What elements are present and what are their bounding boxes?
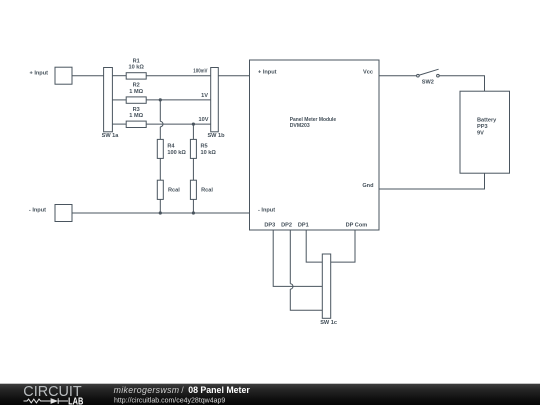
svg-text:DP2: DP2	[281, 222, 292, 228]
svg-text:1 MΩ: 1 MΩ	[129, 89, 143, 95]
svg-text:100mV: 100mV	[193, 69, 207, 75]
svg-text:- Input: - Input	[258, 208, 275, 214]
svg-text:DP1: DP1	[298, 222, 309, 228]
svg-text:Rcal: Rcal	[168, 187, 180, 193]
wire hop DP2 over DP3	[290, 284, 293, 289]
svg-text:Vcc: Vcc	[363, 69, 373, 75]
svg-text:SW 1a: SW 1a	[102, 133, 120, 139]
wire bottom rail	[72, 212, 250, 214]
junction 1V/R4	[159, 98, 162, 101]
wire SW1a to R3	[112, 123, 126, 125]
panel meter module U1	[250, 60, 380, 230]
svg-text:- Input: - Input	[29, 208, 46, 214]
svg-text:PP3: PP3	[477, 124, 488, 130]
svg-text:1V: 1V	[201, 93, 208, 99]
wire Rcal to bottom rail	[159, 199, 161, 213]
wire DPCom to SW1c	[331, 230, 355, 262]
wire R4 to Rcal	[159, 158, 161, 180]
switch SW1c	[320, 254, 337, 326]
wire R3 to SW1b (10V row)	[146, 123, 211, 125]
svg-text:08 Panel Meter: 08 Panel Meter	[188, 385, 250, 395]
svg-text:R3: R3	[133, 107, 140, 113]
svg-text:+ Input: + Input	[258, 69, 277, 75]
svg-text:R5: R5	[201, 144, 208, 150]
svg-text:10 kΩ: 10 kΩ	[129, 65, 145, 71]
resistor R2	[126, 83, 146, 104]
svg-text:Gnd: Gnd	[362, 183, 374, 189]
svg-text:LAB: LAB	[68, 396, 83, 405]
terminal -Input	[29, 205, 72, 222]
svg-text:9V: 9V	[477, 130, 484, 136]
wire hop to R4	[159, 127, 161, 140]
svg-text:DVM203: DVM203	[290, 123, 310, 129]
svg-text:http://circuitlab.com/ce4y28tq: http://circuitlab.com/ce4y28tqw4ap9	[114, 397, 225, 404]
wire R4 branch upper	[159, 100, 161, 122]
logo wire-resistor-diode	[24, 398, 69, 404]
wire R2 to SW1b (1V row)	[146, 99, 211, 101]
wire DP1 to SW1c	[306, 230, 322, 262]
wire DP2 to SW1c	[290, 289, 322, 310]
switch SW1a	[102, 68, 120, 140]
svg-text:DP3: DP3	[264, 222, 275, 228]
svg-text:R4: R4	[167, 144, 175, 150]
svg-text:R1: R1	[133, 59, 140, 65]
wire hop over 10V row	[160, 121, 163, 126]
svg-text:DP Com: DP Com	[346, 222, 368, 228]
wire R1 to SW1b (100mV row)	[146, 75, 211, 77]
svg-text:Battery: Battery	[477, 117, 497, 123]
svg-text:mikerogerswsm: mikerogerswsm	[114, 385, 180, 395]
junction Rcal right / rail	[192, 211, 195, 214]
logo diode triangle	[51, 398, 58, 404]
wire DP3 to SW1c	[273, 230, 322, 286]
terminal +Input	[30, 67, 73, 84]
resistor R5	[190, 139, 216, 158]
switch SW1b	[207, 68, 225, 140]
svg-text:100 kΩ: 100 kΩ	[167, 150, 186, 156]
svg-text:SW2: SW2	[422, 79, 434, 85]
battery PP3	[460, 91, 510, 173]
wire SW2 to battery top	[439, 76, 484, 92]
wire SW1a to R1	[112, 75, 126, 77]
svg-text:+ Input: + Input	[30, 70, 49, 76]
svg-text:SW 1b: SW 1b	[207, 133, 225, 139]
switch SW2	[417, 69, 440, 85]
wire SW1a to R2	[112, 99, 126, 101]
wire battery bottom to Gnd	[379, 173, 485, 189]
junction Rcal left / rail	[159, 211, 162, 214]
resistor Rcal (right)	[190, 180, 213, 199]
svg-text:SW 1c: SW 1c	[320, 320, 337, 326]
resistor Rcal (left)	[157, 180, 180, 199]
svg-text:10 kΩ: 10 kΩ	[201, 150, 217, 156]
wire Rcal to bottom rail	[192, 199, 194, 213]
wire +Input to SW1a	[72, 75, 104, 77]
resistor R3	[126, 107, 146, 128]
svg-text:10V: 10V	[199, 117, 209, 123]
wire DP2 upper	[289, 230, 291, 284]
wire 10V to R5	[192, 124, 194, 139]
wire Vcc to SW2	[379, 75, 417, 77]
resistor R1	[126, 59, 146, 80]
svg-text:Rcal: Rcal	[201, 187, 213, 193]
svg-text:R2: R2	[133, 83, 140, 89]
resistor R4	[157, 139, 186, 158]
wire R5 to Rcal	[192, 158, 194, 180]
junction 10V/R5	[192, 123, 195, 126]
svg-text:1 MΩ: 1 MΩ	[129, 113, 143, 119]
wire SW1b to module +Input	[218, 75, 249, 77]
